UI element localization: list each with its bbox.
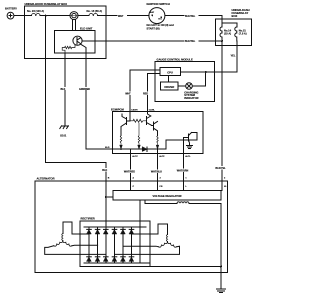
ELD unit internal circle bbox=[73, 36, 82, 45]
wire stator phase 2 tap bbox=[72, 244, 98, 247]
wire ground bus to G301 bbox=[220, 267, 222, 290]
svg-text:BLK: BLK bbox=[61, 88, 66, 91]
diode column 2 bbox=[95, 227, 100, 263]
ELD output wire inside bbox=[81, 44, 86, 53]
diode column 1 bbox=[87, 227, 92, 263]
ELD unit box bbox=[55, 31, 95, 54]
fuse No.21 (7.5 A) bbox=[235, 27, 237, 41]
ELD sensor neck wires bbox=[71, 19, 73, 30]
svg-text:ALTL: ALTL bbox=[185, 155, 191, 158]
svg-text:BLK/YEL: BLK/YEL bbox=[215, 167, 226, 170]
driver resistor arrow 1 bbox=[120, 136, 122, 149]
svg-text:BLK: BLK bbox=[102, 169, 107, 172]
stator right winding right arm coil bbox=[168, 242, 177, 248]
wire IG1 to under-dash box bbox=[165, 15, 222, 17]
svg-text:BATTERY: BATTERY bbox=[5, 6, 17, 10]
svg-text:WHT/GRN: WHT/GRN bbox=[177, 169, 189, 172]
driver resistor arrow 3 bbox=[156, 136, 158, 149]
node ground bus junction bbox=[220, 266, 222, 268]
charging system indicator lamp bbox=[186, 83, 193, 90]
svg-text:BAT: BAT bbox=[150, 11, 155, 14]
wire color label GRN/RED bbox=[79, 87, 94, 91]
node junction lamp feed bbox=[205, 71, 207, 73]
svg-text:IG: IG bbox=[224, 186, 227, 188]
node B+ top bus junction bbox=[105, 226, 107, 228]
svg-text:ALTF: ALTF bbox=[159, 155, 165, 158]
svg-text:INDICATOR: INDICATOR bbox=[184, 96, 198, 100]
rectifier bottom bus bbox=[84, 262, 150, 264]
rotor field coil L1 bbox=[177, 202, 189, 203]
wire BLK/YEL fuse14 to alternator IG bbox=[221, 41, 223, 191]
wire color label WHT bbox=[125, 91, 135, 95]
wire color label BLK/YEL bbox=[185, 39, 199, 43]
wire color label RED bbox=[143, 91, 152, 95]
diode column 4 bbox=[112, 227, 117, 263]
svg-text:CANH: CANH bbox=[131, 109, 138, 112]
wire DRIVER to lamp bbox=[178, 85, 186, 87]
wire color label WHT/RED bbox=[124, 170, 138, 174]
rectifier box bbox=[80, 221, 150, 267]
under-dash fuse/relay box bbox=[216, 19, 252, 45]
pin stub ALTF bbox=[157, 149, 159, 153]
wire pin ALTL to Q4 base bbox=[182, 138, 184, 154]
pin stub ALTC bbox=[130, 149, 132, 153]
wire stator phase 3 tap bbox=[45, 246, 106, 255]
node B+ sense junction bbox=[105, 196, 107, 198]
wire CPU to DRIVER bbox=[167, 76, 169, 83]
diode D1 bbox=[142, 147, 147, 152]
internal rail bbox=[113, 148, 143, 150]
wire fuse23 to ELD sensor bbox=[40, 15, 70, 17]
svg-text:RECTIFIER: RECTIFIER bbox=[81, 217, 95, 221]
svg-text:GAUGE CONTROL MODULE: GAUGE CONTROL MODULE bbox=[157, 57, 193, 61]
wire alternator C terminal down bbox=[130, 181, 132, 191]
wire ALTF to alternator WHT/BLU bbox=[157, 154, 159, 181]
svg-text:WHT/RED: WHT/RED bbox=[124, 171, 135, 174]
under-hood fuse/relay box bbox=[24, 6, 106, 59]
transistor Q3 bbox=[152, 122, 158, 136]
node rail junction bbox=[120, 148, 122, 150]
wire color label BLK bbox=[102, 168, 110, 172]
fuse No.23 (120 A) bbox=[32, 14, 41, 16]
svg-text:(7.5 A): (7.5 A) bbox=[239, 32, 247, 36]
voltage regulator box bbox=[113, 191, 221, 201]
fuse No.15 (50 A) bbox=[89, 14, 98, 16]
fuse No.14 (15 A) bbox=[220, 27, 222, 41]
ECM/PCM box bbox=[113, 112, 204, 154]
ELD current sensor loop bbox=[70, 12, 78, 20]
resistor R1 bbox=[130, 119, 147, 122]
transistor Q1 bbox=[121, 114, 130, 136]
svg-text:ALTERNATOR: ALTERNATOR bbox=[37, 177, 55, 181]
stator left winding left arm coil bbox=[54, 241, 63, 247]
rectifier top bus bbox=[84, 226, 146, 228]
wire color label WHT bbox=[118, 14, 128, 18]
driver resistor arrow 2 bbox=[138, 123, 140, 149]
wire right stator phase tap col6 bbox=[132, 224, 168, 235]
wire alternator L terminal down bbox=[182, 181, 184, 191]
diode column 6 bbox=[129, 227, 134, 263]
stator left winding right arm coil bbox=[63, 241, 72, 247]
gauge control module box bbox=[155, 62, 215, 102]
battery B1 bbox=[7, 12, 14, 19]
wire color label BLK/YEL bbox=[185, 14, 199, 18]
svg-text:DRIVER: DRIVER bbox=[164, 85, 174, 89]
svg-text:YEL: YEL bbox=[230, 54, 235, 58]
wire ELD BLK ground bbox=[64, 53, 66, 126]
wire BLK/YEL fuse No.14 to ELD unit power bbox=[82, 40, 222, 42]
node junction battery bus / alternator B+ bbox=[45, 15, 47, 17]
wire ALTC to alternator WHT/RED bbox=[130, 154, 132, 181]
alternator box bbox=[35, 181, 228, 273]
svg-text:ECM/PCM: ECM/PCM bbox=[111, 108, 124, 112]
wire ELD sensor to fuse No.15 bbox=[78, 15, 89, 17]
transistor Q4 ground bbox=[187, 145, 193, 148]
stator left winding top arm coil bbox=[62, 234, 63, 241]
wire bridge to fuse No.21 bbox=[222, 23, 237, 27]
wire B+ sense to regulator bbox=[106, 196, 113, 198]
svg-text:CPU: CPU bbox=[167, 71, 173, 75]
svg-text:VOLTAGE REGULATOR: VOLTAGE REGULATOR bbox=[152, 194, 181, 198]
wire ALTL to alternator WHT/GRN bbox=[182, 154, 184, 181]
wire lamp to YEL feed bbox=[192, 72, 205, 86]
svg-text:RED: RED bbox=[143, 92, 148, 95]
ground G301 bbox=[217, 289, 226, 293]
svg-text:ELD: ELD bbox=[105, 147, 110, 149]
field coil to ground wire bbox=[189, 203, 221, 266]
ignition switch bbox=[149, 8, 165, 24]
wire regulator to rectifier bottom bus bbox=[139, 200, 141, 263]
svg-text:No. 23 (120 A): No. 23 (120 A) bbox=[27, 9, 44, 13]
svg-text:IGNITION SWITCH: IGNITION SWITCH bbox=[147, 2, 170, 6]
svg-text:CANL: CANL bbox=[149, 109, 156, 112]
stator right winding top arm coil bbox=[166, 235, 167, 242]
svg-text:FR: FR bbox=[160, 186, 163, 188]
transistor Q4 bbox=[183, 133, 191, 146]
wire IG1 down into box bbox=[221, 16, 223, 27]
svg-text:(15 A): (15 A) bbox=[224, 32, 231, 36]
wire color label WHT/GRN bbox=[176, 168, 190, 172]
wire CANH into Q1 bbox=[129, 112, 131, 121]
diode column 5 bbox=[121, 227, 126, 263]
wire stator phase 1 tap bbox=[63, 222, 89, 234]
svg-text:WHT: WHT bbox=[125, 92, 131, 95]
transistor Q2 bbox=[147, 112, 152, 126]
svg-text:No. 15 (50 A): No. 15 (50 A) bbox=[87, 9, 103, 13]
svg-text:BOX: BOX bbox=[232, 14, 238, 18]
wire B+ into rectifier bbox=[105, 181, 107, 227]
svg-text:WHT/BLU: WHT/BLU bbox=[151, 171, 162, 174]
field winding drive wire bbox=[145, 200, 177, 203]
wire CANL gauge to ECM bbox=[148, 73, 161, 111]
svg-text:BLK/YEL: BLK/YEL bbox=[185, 15, 196, 18]
wire right stator phase tap col4 bbox=[115, 246, 180, 254]
wire fuse No.21 down YEL bbox=[215, 41, 237, 72]
CPU box bbox=[160, 68, 181, 76]
node junction fuse14 output bbox=[221, 40, 223, 42]
wire B+ battery to alternator bbox=[46, 16, 106, 181]
diode column 3 bbox=[104, 227, 109, 263]
wire battery to under-hood box bbox=[14, 15, 32, 17]
svg-text:START (III): START (III) bbox=[147, 26, 160, 30]
wire right stator phase tap col5 bbox=[123, 245, 158, 248]
DRIVER box bbox=[161, 82, 178, 90]
ground G101 bbox=[60, 126, 69, 129]
wire rail to Q4 collector bbox=[166, 133, 197, 150]
wire color label BLK bbox=[60, 87, 68, 91]
svg-text:ELD UNIT: ELD UNIT bbox=[80, 26, 93, 30]
svg-text:BLK/YEL: BLK/YEL bbox=[185, 40, 196, 43]
wire alternator FR terminal down bbox=[157, 181, 159, 191]
svg-text:UNDER-HOOD FUSE/RELAY BOX: UNDER-HOOD FUSE/RELAY BOX bbox=[25, 2, 68, 6]
stator right winding left arm coil bbox=[158, 242, 167, 248]
wire CANH gauge to ECM bbox=[130, 70, 160, 111]
wire CPU right to YEL feed bbox=[181, 71, 215, 73]
wire ELD signal GRN/RED to ECM bbox=[86, 53, 113, 149]
ELD internal resistor bbox=[62, 45, 75, 53]
svg-text:G101: G101 bbox=[60, 133, 67, 137]
svg-text:GRN/RED: GRN/RED bbox=[79, 88, 90, 91]
svg-text:WHT: WHT bbox=[118, 15, 124, 18]
wire fuse No.15 to ignition switch BAT bbox=[98, 15, 149, 17]
wire color label WHT/BLU bbox=[151, 170, 165, 174]
wire color label BLK/YEL bbox=[215, 166, 229, 170]
svg-text:ALTC: ALTC bbox=[132, 155, 138, 158]
